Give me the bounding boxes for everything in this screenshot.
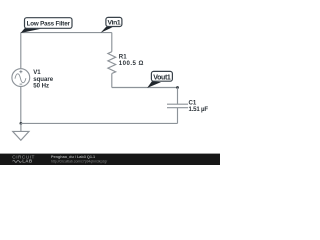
svg-text:Vout1: Vout1 bbox=[153, 75, 171, 82]
resistor R1 bbox=[108, 52, 116, 74]
flag node Vout1 bbox=[147, 71, 172, 88]
wire resistor bottom lead bbox=[111, 74, 113, 88]
node junction dot at capacitor bbox=[176, 86, 179, 89]
capacitor C1 bbox=[167, 104, 188, 108]
wire top (node Vin) bbox=[21, 32, 112, 34]
watermark bar bbox=[0, 154, 220, 165]
label C1 bbox=[189, 100, 209, 114]
voltage source V1 bbox=[12, 69, 30, 87]
flag label Low Pass Filter bbox=[21, 18, 72, 33]
svg-text:http://circuitlab.com/c7p94qhm: http://circuitlab.com/c7p94qhm3kp2g/ bbox=[51, 159, 107, 163]
flag node Vin1 bbox=[101, 17, 122, 32]
svg-text:Vin1: Vin1 bbox=[107, 19, 120, 26]
wire capacitor bottom lead bbox=[177, 108, 179, 124]
wire mid (node Vout) bbox=[112, 87, 178, 89]
wire resistor top lead bbox=[111, 33, 113, 52]
watermark text bbox=[51, 155, 107, 163]
ground bbox=[13, 123, 29, 140]
svg-text:LAB: LAB bbox=[22, 159, 33, 164]
svg-text:Low Pass Filter: Low Pass Filter bbox=[27, 20, 71, 27]
wire left upper (V1 plus lead) bbox=[20, 33, 22, 69]
svg-text:50 Hz: 50 Hz bbox=[33, 83, 49, 90]
label V1 value bbox=[33, 69, 54, 89]
svg-text:100.5 Ω: 100.5 Ω bbox=[119, 60, 144, 67]
node junction dot at ground bbox=[20, 122, 23, 125]
svg-text:1.51 µF: 1.51 µF bbox=[189, 106, 209, 113]
wire left lower (V1 minus lead) bbox=[20, 87, 22, 124]
watermark logo CIRCUIT LAB bbox=[12, 155, 35, 164]
wire capacitor top lead bbox=[177, 88, 179, 105]
label R1 bbox=[119, 54, 144, 68]
wire bottom bbox=[21, 122, 178, 124]
